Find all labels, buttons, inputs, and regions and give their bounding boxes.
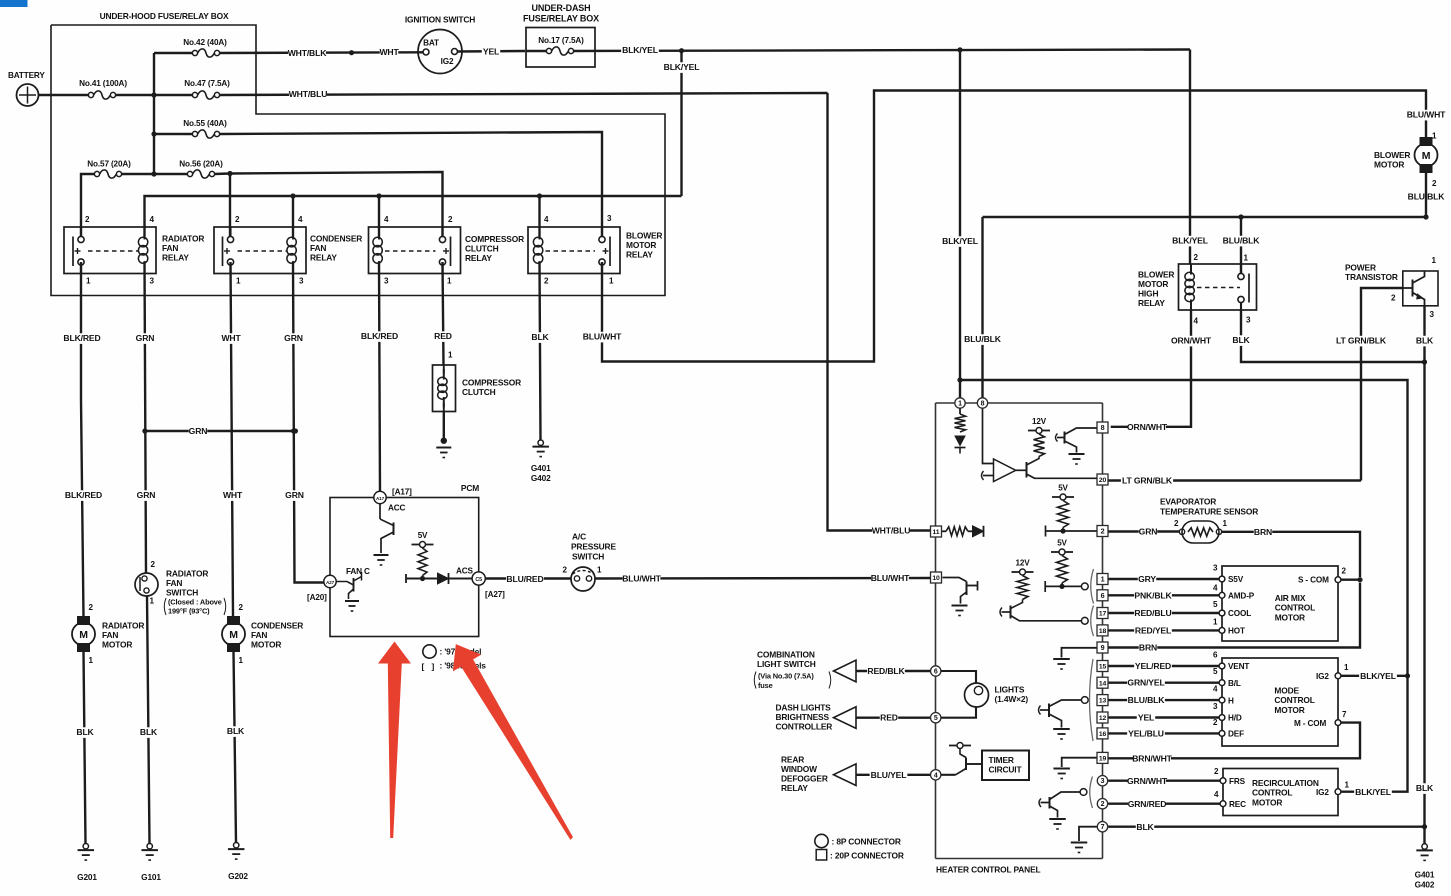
svg-text:LT GRN/BLK: LT GRN/BLK	[1336, 336, 1387, 346]
svg-text:BLU/RED: BLU/RED	[506, 574, 543, 584]
svg-text:YEL/RED: YEL/RED	[1135, 661, 1171, 671]
svg-text:1: 1	[609, 277, 614, 286]
svg-text:3: 3	[607, 214, 612, 223]
svg-text:FAN: FAN	[166, 578, 182, 588]
svg-text:VENT: VENT	[1228, 662, 1249, 671]
svg-text:GRN: GRN	[1139, 527, 1158, 537]
svg-text:RELAY: RELAY	[162, 253, 189, 263]
svg-text:1: 1	[1101, 575, 1105, 584]
svg-text:A17: A17	[376, 496, 385, 501]
svg-text:4: 4	[1213, 685, 1218, 694]
svg-text:GRN/YEL: GRN/YEL	[1127, 678, 1164, 688]
svg-text:COMPRESSOR: COMPRESSOR	[465, 234, 524, 244]
svg-text:POWER: POWER	[1345, 263, 1376, 273]
svg-text:6: 6	[1101, 591, 1105, 600]
svg-text:MOTOR: MOTOR	[1374, 160, 1404, 170]
svg-text:]: ]	[432, 662, 435, 672]
svg-text:SWITCH: SWITCH	[572, 552, 604, 562]
svg-text:16: 16	[1099, 731, 1107, 738]
svg-text:MOTOR: MOTOR	[1275, 612, 1305, 622]
svg-text:H/D: H/D	[1228, 714, 1242, 723]
svg-text:2: 2	[1214, 767, 1219, 776]
svg-text:2: 2	[448, 215, 453, 224]
svg-text:GRY: GRY	[1138, 574, 1156, 584]
svg-text:3: 3	[1213, 564, 1218, 573]
svg-text:2: 2	[1213, 718, 1218, 727]
svg-text:G101: G101	[141, 872, 161, 882]
svg-text:GRN: GRN	[136, 333, 155, 343]
svg-text:BLK: BLK	[140, 727, 158, 737]
svg-text:CLUTCH: CLUTCH	[462, 387, 496, 397]
svg-text:FAN: FAN	[251, 630, 267, 640]
svg-text:RED/BLU: RED/BLU	[1134, 608, 1171, 618]
svg-text:1: 1	[89, 656, 94, 665]
svg-text:5V: 5V	[1057, 539, 1067, 548]
svg-text:4: 4	[544, 215, 549, 224]
svg-text:CONTROL: CONTROL	[1274, 695, 1314, 705]
svg-text:4: 4	[1194, 317, 1199, 326]
svg-text:RELAY: RELAY	[781, 783, 808, 793]
svg-text:BLK/YEL: BLK/YEL	[1355, 787, 1391, 797]
svg-text:RED/BLK: RED/BLK	[867, 666, 905, 676]
svg-text:S - COM: S - COM	[1298, 576, 1329, 585]
svg-text:No.41 (100A): No.41 (100A)	[79, 79, 127, 88]
svg-text:BLK/YEL: BLK/YEL	[942, 236, 978, 246]
svg-text:WHT: WHT	[223, 490, 243, 500]
svg-text:DEFOGGER: DEFOGGER	[781, 774, 828, 784]
svg-text:2: 2	[544, 277, 549, 286]
svg-text:7: 7	[1101, 824, 1105, 831]
svg-text:REC: REC	[1229, 800, 1246, 809]
svg-text:12: 12	[1099, 715, 1107, 722]
svg-text:1: 1	[1432, 256, 1437, 265]
svg-text:MOTOR: MOTOR	[251, 640, 281, 650]
svg-text:GRN/RED: GRN/RED	[1128, 799, 1167, 809]
svg-text:RADIATOR: RADIATOR	[102, 621, 144, 631]
svg-text:WHT: WHT	[221, 333, 241, 343]
svg-text:M: M	[1422, 150, 1431, 162]
svg-text:CONDENSER: CONDENSER	[310, 234, 362, 244]
svg-text:2: 2	[1101, 801, 1105, 808]
svg-text:B/L: B/L	[1228, 679, 1241, 688]
svg-text:COMPRESSOR: COMPRESSOR	[462, 378, 521, 388]
svg-text:BLK/YEL: BLK/YEL	[1172, 236, 1208, 246]
svg-text:10: 10	[932, 575, 940, 582]
svg-text:BLK/RED: BLK/RED	[63, 333, 100, 343]
svg-text:9: 9	[1101, 643, 1105, 652]
svg-text:15: 15	[1099, 664, 1107, 671]
svg-text:[A20]: [A20]	[307, 593, 327, 602]
svg-text:IG2: IG2	[441, 57, 454, 66]
svg-text:RELAY: RELAY	[465, 253, 492, 263]
svg-text:HOT: HOT	[1228, 627, 1245, 636]
svg-text:2: 2	[1342, 567, 1347, 576]
svg-text:G402: G402	[1415, 880, 1435, 890]
svg-text:1: 1	[1213, 618, 1218, 627]
svg-text:BLK/YEL: BLK/YEL	[1360, 671, 1396, 681]
svg-text:TEMPERATURE SENSOR: TEMPERATURE SENSOR	[1160, 507, 1258, 517]
svg-text:GRN/WHT: GRN/WHT	[1127, 776, 1168, 786]
svg-text:PNK/BLK: PNK/BLK	[1134, 590, 1172, 600]
svg-text:199°F (93°C): 199°F (93°C)	[168, 607, 210, 616]
svg-text:FAN: FAN	[162, 243, 178, 253]
svg-text:1: 1	[1432, 132, 1437, 141]
svg-text:WINDOW: WINDOW	[781, 764, 817, 774]
svg-text:1: 1	[448, 351, 453, 360]
svg-text:BAT: BAT	[423, 39, 439, 48]
svg-text:TRANSISTOR: TRANSISTOR	[1345, 272, 1398, 282]
svg-text:AMD-P: AMD-P	[1228, 592, 1255, 601]
svg-text:IG2: IG2	[1316, 672, 1329, 681]
svg-text:CONTROLLER: CONTROLLER	[776, 722, 833, 732]
svg-text:YEL: YEL	[483, 47, 499, 57]
svg-text:FUSE/RELAY BOX: FUSE/RELAY BOX	[523, 14, 599, 24]
svg-text:: 8P CONNECTOR: : 8P CONNECTOR	[832, 837, 901, 847]
svg-text:CONDENSER: CONDENSER	[251, 621, 303, 631]
svg-text:No.47 (7.5A): No.47 (7.5A)	[184, 79, 230, 88]
svg-text:RED: RED	[880, 713, 898, 723]
svg-text:IG2: IG2	[1316, 788, 1329, 797]
svg-text:PCM: PCM	[461, 483, 479, 493]
svg-text:RELAY: RELAY	[1138, 298, 1165, 308]
svg-text:BLK/YEL: BLK/YEL	[622, 45, 658, 55]
svg-text:1: 1	[1244, 254, 1249, 263]
svg-text:(1.4W×2): (1.4W×2)	[995, 694, 1029, 704]
svg-text:1: 1	[150, 597, 155, 606]
svg-text:MODE: MODE	[1274, 686, 1299, 696]
svg-text:G202: G202	[228, 871, 248, 881]
svg-text:WHT/BLU: WHT/BLU	[872, 526, 911, 536]
svg-text:DEF: DEF	[1228, 730, 1244, 739]
svg-text:MOTOR: MOTOR	[626, 240, 656, 250]
svg-text:3: 3	[1101, 778, 1105, 785]
svg-text:5V: 5V	[418, 531, 428, 540]
svg-text:MOTOR: MOTOR	[1252, 797, 1282, 807]
svg-text:BRN: BRN	[1139, 643, 1157, 653]
svg-text:BLU/WHT: BLU/WHT	[871, 573, 910, 583]
svg-text:4: 4	[384, 215, 389, 224]
svg-text:2: 2	[151, 560, 156, 569]
svg-text:No.57 (20A): No.57 (20A)	[87, 160, 131, 169]
svg-text:[A27]: [A27]	[485, 590, 505, 599]
svg-text:4: 4	[934, 772, 938, 779]
svg-text:[: [	[422, 662, 425, 672]
svg-text:UNDER-HOOD FUSE/RELAY BOX: UNDER-HOOD FUSE/RELAY BOX	[100, 11, 229, 21]
svg-text:BLK/RED: BLK/RED	[65, 490, 102, 500]
svg-text:LIGHTS: LIGHTS	[995, 685, 1025, 695]
svg-text:2: 2	[1432, 179, 1437, 188]
svg-text:BLOWER: BLOWER	[1374, 150, 1410, 160]
svg-text:8: 8	[981, 401, 985, 408]
svg-text:M: M	[79, 629, 88, 641]
svg-text:BLOWER: BLOWER	[1138, 270, 1174, 280]
svg-text:No.17 (7.5A): No.17 (7.5A)	[538, 36, 584, 45]
svg-text:(Via No.30 (7.5A): (Via No.30 (7.5A)	[758, 672, 814, 681]
svg-text:3: 3	[1213, 702, 1218, 711]
svg-text:CLUTCH: CLUTCH	[465, 244, 499, 254]
svg-text:1: 1	[597, 566, 602, 575]
svg-text:GRN: GRN	[137, 490, 156, 500]
svg-text:ORN/WHT: ORN/WHT	[1171, 336, 1212, 346]
svg-text:REAR: REAR	[781, 755, 804, 765]
svg-text:DASH LIGHTS: DASH LIGHTS	[776, 703, 832, 713]
svg-text:BLU/BLK: BLU/BLK	[1128, 695, 1166, 705]
svg-text:BRIGHTNESS: BRIGHTNESS	[776, 712, 830, 722]
svg-text:RADIATOR: RADIATOR	[166, 569, 208, 579]
svg-text:MOTOR: MOTOR	[1274, 705, 1304, 715]
svg-text:12V: 12V	[1032, 417, 1047, 426]
svg-text:5: 5	[934, 715, 938, 722]
svg-text:1: 1	[958, 401, 962, 408]
svg-text:No.56 (20A): No.56 (20A)	[179, 160, 223, 169]
svg-text:LT GRN/BLK: LT GRN/BLK	[1122, 476, 1173, 486]
svg-text:YEL/BLU: YEL/BLU	[1128, 728, 1164, 738]
svg-text:BLK: BLK	[1416, 336, 1434, 346]
svg-text:RELAY: RELAY	[310, 253, 337, 263]
svg-text:M: M	[229, 629, 238, 641]
svg-text:BLK/RED: BLK/RED	[361, 331, 398, 341]
svg-text:2: 2	[85, 215, 90, 224]
svg-text:BLU/WHT: BLU/WHT	[622, 574, 661, 584]
svg-text:2: 2	[235, 215, 240, 224]
svg-text:6: 6	[934, 669, 938, 676]
svg-text:GRN: GRN	[285, 490, 304, 500]
svg-text:GRN: GRN	[189, 426, 208, 436]
svg-text:G401: G401	[1415, 870, 1435, 880]
svg-text:COMBINATION: COMBINATION	[757, 650, 815, 660]
svg-text:5V: 5V	[1058, 484, 1068, 493]
svg-text:BLK: BLK	[227, 726, 245, 736]
svg-text:CIRCUIT: CIRCUIT	[989, 765, 1023, 775]
svg-text:4: 4	[1214, 790, 1219, 799]
svg-text:FAN C: FAN C	[346, 567, 370, 576]
svg-text:BLK: BLK	[76, 727, 94, 737]
svg-text:WHT/BLK: WHT/BLK	[288, 48, 328, 58]
svg-text:BLU/BLK: BLU/BLK	[964, 334, 1002, 344]
svg-text:RELAY: RELAY	[626, 250, 653, 260]
svg-text:M - COM: M - COM	[1294, 719, 1326, 728]
svg-text:3: 3	[150, 277, 155, 286]
svg-text:1: 1	[447, 277, 452, 286]
svg-text:RED/YEL: RED/YEL	[1135, 625, 1171, 635]
svg-text:2: 2	[239, 603, 244, 612]
svg-text:A27: A27	[326, 580, 335, 585]
svg-text:7: 7	[1342, 710, 1347, 719]
svg-text:fuse: fuse	[758, 681, 773, 690]
svg-text:S5V: S5V	[1228, 575, 1244, 584]
svg-text:BLU/WHT: BLU/WHT	[1407, 110, 1446, 120]
svg-text:19: 19	[1099, 756, 1107, 763]
svg-text:G402: G402	[531, 473, 551, 483]
svg-text:20: 20	[1099, 477, 1107, 484]
svg-text:YEL: YEL	[1138, 713, 1154, 723]
svg-text:3: 3	[384, 277, 389, 286]
svg-text:2: 2	[89, 603, 94, 612]
svg-text:[A17]: [A17]	[392, 488, 412, 497]
svg-text:RECIRCULATION: RECIRCULATION	[1252, 778, 1319, 788]
svg-text:3: 3	[1430, 310, 1435, 319]
svg-text:11: 11	[933, 529, 940, 536]
svg-text:1: 1	[239, 656, 244, 665]
svg-text:2: 2	[1391, 294, 1396, 303]
svg-text:8: 8	[1101, 423, 1105, 432]
svg-text:2: 2	[1194, 253, 1199, 262]
svg-text:BLK: BLK	[1136, 822, 1154, 832]
svg-text:No.42 (40A): No.42 (40A)	[183, 38, 227, 47]
svg-text:EVAPORATOR: EVAPORATOR	[1160, 497, 1216, 507]
svg-text:2: 2	[1174, 519, 1179, 528]
svg-text:(Closed : Above: (Closed : Above	[168, 598, 222, 607]
svg-text:TIMER: TIMER	[989, 755, 1014, 765]
svg-text:H: H	[1228, 696, 1234, 705]
svg-text:3: 3	[1246, 316, 1251, 325]
svg-text:FAN: FAN	[310, 243, 326, 253]
svg-text:17: 17	[1099, 611, 1107, 618]
svg-text:CONTROL: CONTROL	[1275, 603, 1315, 613]
svg-text:BLU/WHT: BLU/WHT	[583, 332, 622, 342]
svg-text:6: 6	[1213, 651, 1218, 660]
svg-text:AIR MIX: AIR MIX	[1275, 593, 1306, 603]
svg-text:4: 4	[150, 215, 155, 224]
svg-text:A/C: A/C	[572, 532, 586, 542]
svg-text:LIGHT SWITCH: LIGHT SWITCH	[757, 659, 816, 669]
svg-text:13: 13	[1099, 698, 1107, 705]
svg-text:WHT/BLU: WHT/BLU	[289, 89, 328, 99]
svg-text:12V: 12V	[1016, 559, 1031, 568]
svg-text:ACS: ACS	[456, 567, 474, 576]
svg-text:14: 14	[1099, 680, 1107, 687]
svg-text:MOTOR: MOTOR	[102, 640, 132, 650]
svg-text:3: 3	[299, 277, 304, 286]
svg-text:C5: C5	[475, 577, 482, 583]
svg-text:FRS: FRS	[1229, 777, 1246, 786]
svg-text:BATTERY: BATTERY	[8, 71, 45, 80]
svg-text:HIGH: HIGH	[1138, 289, 1158, 299]
svg-text:BRN/WHT: BRN/WHT	[1132, 753, 1172, 763]
svg-text:18: 18	[1099, 628, 1107, 635]
svg-text:5: 5	[1213, 667, 1218, 676]
svg-text:BRN: BRN	[1254, 527, 1272, 537]
svg-text:UNDER-DASH: UNDER-DASH	[532, 3, 591, 13]
svg-text:1: 1	[86, 277, 91, 286]
svg-text:COOL: COOL	[1228, 609, 1251, 618]
svg-text:BLK: BLK	[1416, 783, 1434, 793]
svg-text:CONTROL: CONTROL	[1252, 788, 1292, 798]
svg-text:5: 5	[1213, 600, 1218, 609]
svg-text:ORN/WHT: ORN/WHT	[1127, 422, 1168, 432]
svg-text:BLK/YEL: BLK/YEL	[664, 62, 700, 72]
svg-text:SWITCH: SWITCH	[166, 588, 198, 598]
svg-text:IGNITION SWITCH: IGNITION SWITCH	[405, 15, 475, 25]
svg-text:WHT: WHT	[379, 47, 399, 57]
svg-text:2: 2	[1101, 527, 1105, 536]
svg-text:No.55 (40A): No.55 (40A)	[183, 119, 227, 128]
svg-text:1: 1	[1344, 663, 1349, 672]
svg-text:BLOWER: BLOWER	[626, 231, 662, 241]
svg-text:PRESSURE: PRESSURE	[571, 542, 616, 552]
svg-text:1: 1	[1345, 781, 1350, 790]
svg-text:4: 4	[298, 215, 303, 224]
svg-text:G401: G401	[531, 463, 551, 473]
svg-text:BLK: BLK	[1232, 335, 1250, 345]
svg-text:: 20P CONNECTOR: : 20P CONNECTOR	[830, 851, 904, 861]
svg-text:2: 2	[563, 566, 568, 575]
svg-text:RADIATOR: RADIATOR	[162, 234, 204, 244]
svg-text:1: 1	[236, 277, 241, 286]
svg-text:4: 4	[1213, 584, 1218, 593]
svg-text:MOTOR: MOTOR	[1138, 279, 1168, 289]
svg-text:BLK: BLK	[531, 332, 549, 342]
svg-text:FAN: FAN	[102, 630, 118, 640]
svg-text:G201: G201	[77, 872, 97, 882]
svg-text:ACC: ACC	[388, 504, 406, 513]
svg-text:1: 1	[1223, 519, 1228, 528]
svg-text:BLU/BLK: BLU/BLK	[1223, 236, 1261, 246]
svg-text:RED: RED	[434, 331, 452, 341]
svg-text:HEATER CONTROL PANEL: HEATER CONTROL PANEL	[936, 865, 1041, 875]
svg-text:BLU/YEL: BLU/YEL	[871, 770, 907, 780]
svg-text:GRN: GRN	[284, 333, 303, 343]
